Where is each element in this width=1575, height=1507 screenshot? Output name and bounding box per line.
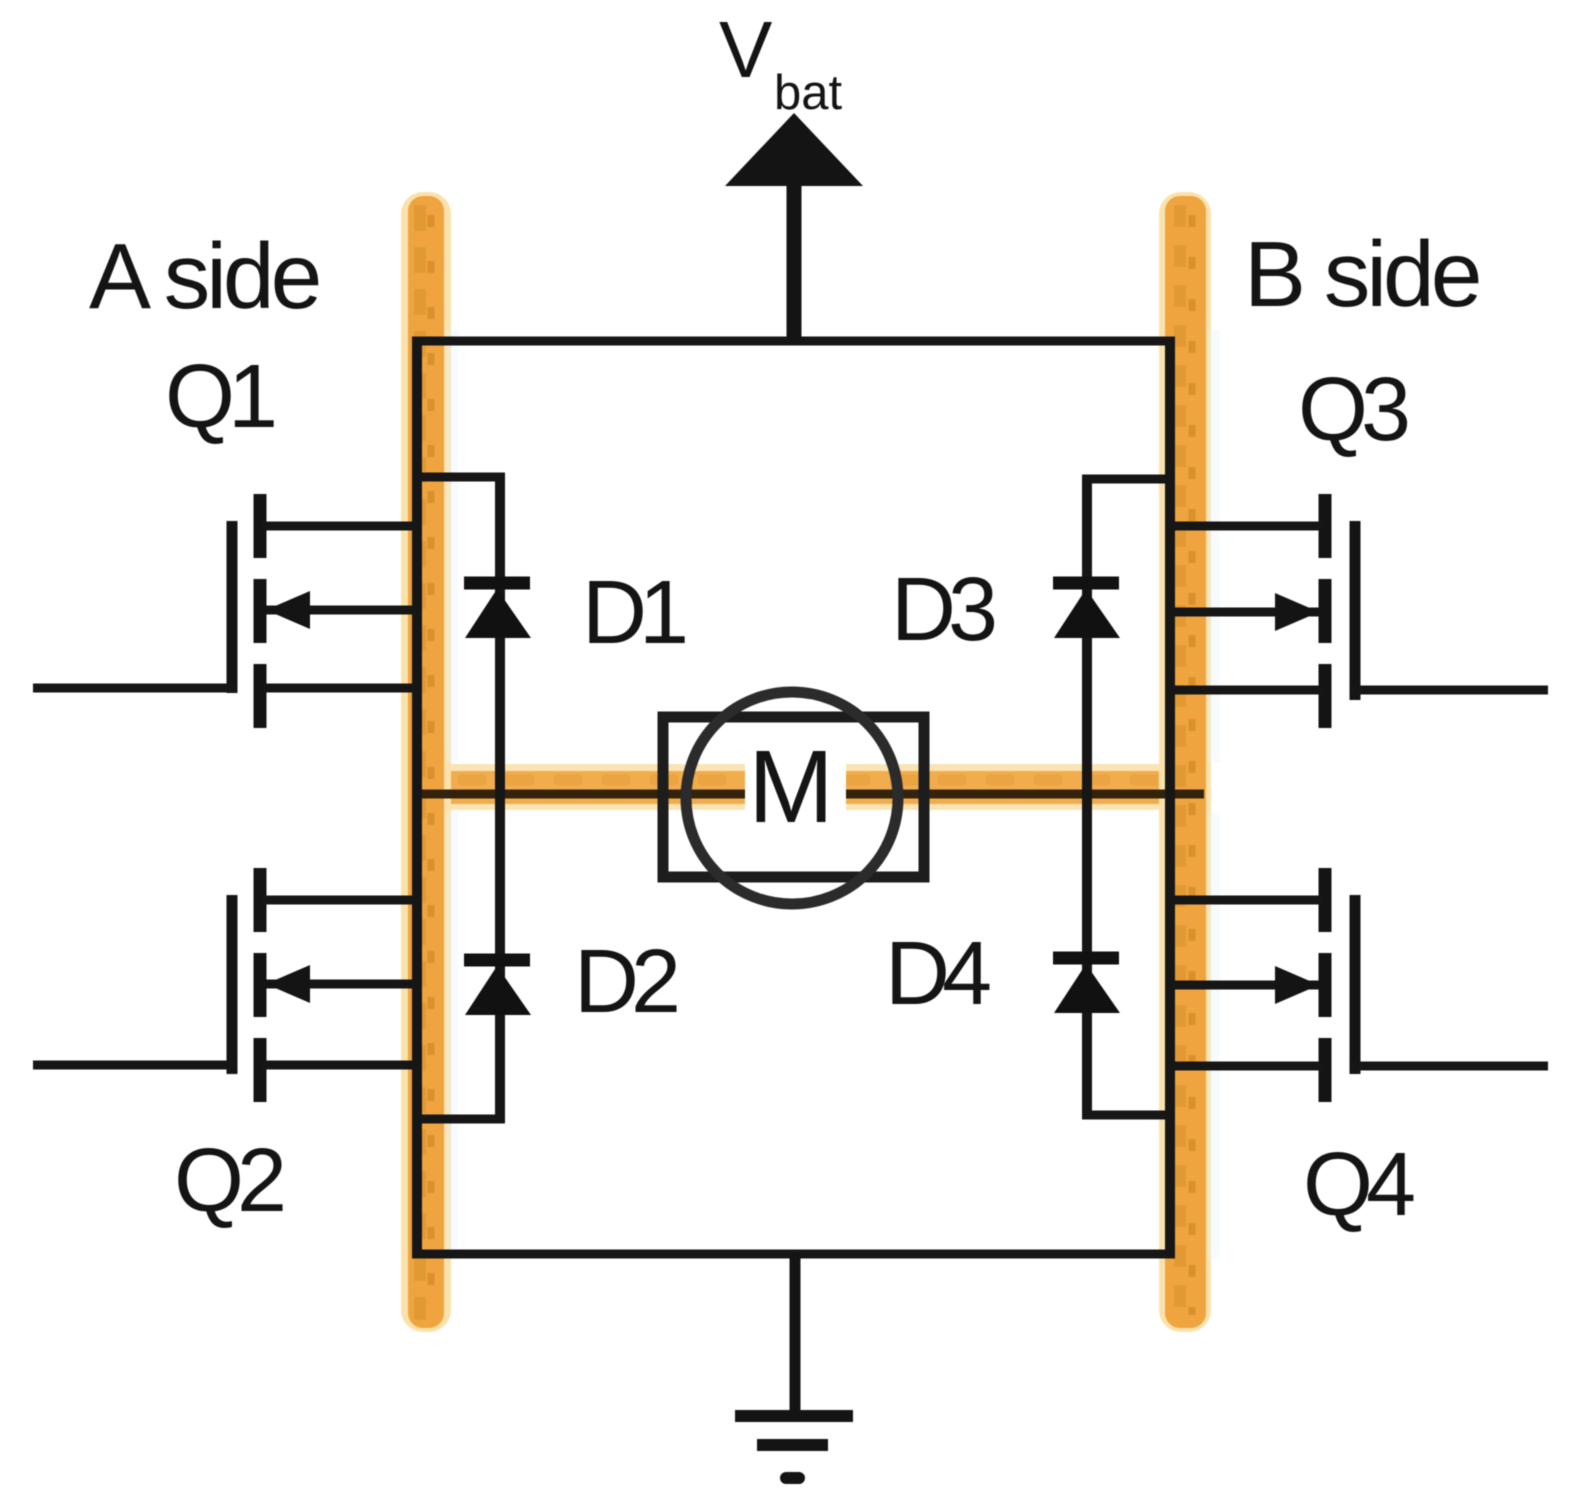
svg-text:A side: A side xyxy=(89,224,319,328)
svg-text:bat: bat xyxy=(774,66,843,120)
transistor Q1 xyxy=(33,494,417,728)
svg-text:Q1: Q1 xyxy=(165,347,274,447)
node B bus highlight (right orange bar) xyxy=(1159,192,1220,1332)
wire: motor node core line xyxy=(412,790,1204,799)
svg-text:D4: D4 xyxy=(885,924,990,1024)
diode D3 xyxy=(1053,583,1120,638)
wire: right diode branch xyxy=(1082,475,1174,1119)
svg-text:D3: D3 xyxy=(891,560,995,660)
wire: left bus vertical xyxy=(412,337,422,1258)
transistor Q2 xyxy=(33,868,417,1102)
diode D1 xyxy=(464,583,531,638)
label Vbat xyxy=(719,5,843,120)
power symbol Vbat arrow xyxy=(725,113,863,345)
wire: right bus vertical xyxy=(1165,337,1175,1258)
svg-text:Q3: Q3 xyxy=(1298,360,1408,460)
svg-text:D1: D1 xyxy=(582,563,685,663)
wire: top rail xyxy=(412,337,1175,346)
motor node highlight (middle orange band) xyxy=(406,764,1206,810)
diode D4 xyxy=(1053,958,1120,1013)
svg-text:Q2: Q2 xyxy=(174,1131,283,1231)
wire: left diode branch xyxy=(413,473,505,1123)
transistor Q4 xyxy=(1170,868,1548,1102)
svg-text:B side: B side xyxy=(1244,222,1479,326)
transistor Q3 xyxy=(1170,494,1548,728)
svg-text:V: V xyxy=(719,5,773,94)
svg-text:Q4: Q4 xyxy=(1303,1135,1414,1235)
node A bus highlight (left orange bar) xyxy=(401,192,458,1332)
ground xyxy=(735,1254,853,1478)
motor M xyxy=(663,692,924,904)
diode D2 xyxy=(464,960,531,1015)
svg-text:D2: D2 xyxy=(574,932,677,1032)
svg-text:M: M xyxy=(748,729,834,844)
wire: bottom rail xyxy=(412,1250,1175,1259)
